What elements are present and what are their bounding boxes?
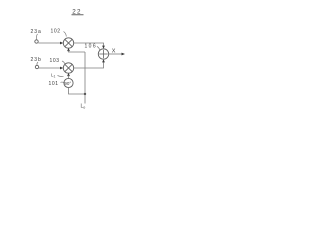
wire phase shifter to mixer 103 — [68, 76, 70, 79]
phase shifter 101 — [64, 78, 73, 87]
svg-text:90°: 90° — [64, 81, 71, 86]
wire LO branch to mixer 102 — [69, 51, 86, 53]
svg-text:X: X — [112, 49, 116, 55]
figure number underline — [72, 14, 84, 16]
leader 23a — [36, 34, 37, 40]
wire LO stem — [84, 52, 86, 104]
output arrowhead — [122, 53, 126, 56]
leader 102 — [64, 32, 67, 37]
wire 23a to mixer 102 — [38, 42, 61, 44]
mixer 102 — [63, 38, 73, 48]
arrow into mixer 102 bottom — [67, 48, 70, 51]
svg-text:23a: 23a — [31, 29, 42, 35]
terminal 23b — [35, 65, 38, 68]
svg-text:23b: 23b — [31, 57, 42, 63]
terminal 23a — [35, 40, 38, 43]
wire mixer 103 output to adder bottom corner — [74, 61, 104, 68]
arrow into adder top — [102, 46, 105, 49]
arrow into mixer 102 left — [60, 42, 63, 45]
mixer 103 — [63, 63, 73, 73]
arrow into adder bottom — [102, 59, 105, 62]
wire adder output — [109, 53, 123, 55]
leader 101 — [61, 81, 64, 84]
wire 23b to mixer 103 — [39, 67, 61, 69]
adder 106 — [98, 49, 108, 59]
arrow into mixer 103 bottom — [67, 73, 70, 76]
leader 103 — [62, 61, 65, 65]
leader 106 — [97, 47, 100, 51]
svg-text:106: 106 — [85, 44, 98, 50]
figure number 22 — [72, 9, 81, 16]
svg-text:101: 101 — [49, 81, 59, 87]
svg-text:103: 103 — [50, 58, 60, 64]
junction dot — [84, 93, 86, 95]
wire mixer 102 output to adder top corner — [74, 43, 104, 48]
leader 23b — [37, 62, 38, 65]
leader L1 — [58, 76, 64, 77]
wire phase shifter bottom to LO stem — [69, 88, 86, 94]
arrow into mixer 103 left — [60, 67, 63, 70]
svg-text:102: 102 — [51, 29, 61, 35]
